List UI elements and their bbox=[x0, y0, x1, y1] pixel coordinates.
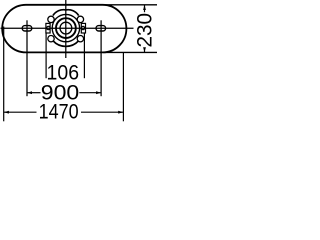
canopy bottom lobe arc bbox=[53, 41, 79, 47]
1470 extension line left bbox=[3, 27, 5, 122]
right mounting slot bbox=[96, 26, 106, 31]
svg-text:230: 230 bbox=[133, 13, 156, 48]
canopy ring circle bbox=[52, 14, 79, 41]
106 extension line left bbox=[45, 33, 47, 78]
106 extension line right bbox=[83, 33, 85, 78]
1470 left arrowhead bbox=[4, 111, 9, 114]
extension line bottom (230) bbox=[103, 51, 157, 53]
canopy NW lug bbox=[48, 16, 54, 22]
230 bottom arrowhead bbox=[143, 47, 146, 52]
west clamp tab bbox=[46, 23, 50, 33]
fixture body outline (stadium shape) bbox=[2, 5, 126, 53]
canopy SE lug bbox=[77, 36, 83, 42]
left mounting slot bbox=[22, 26, 32, 31]
left slot centerline / 900 extension line bbox=[26, 20, 28, 96]
west tab hole bbox=[47, 26, 50, 29]
1470 extension line right bbox=[122, 52, 124, 121]
canopy top lobe arc bbox=[53, 10, 79, 16]
230 dimension line top segment bbox=[144, 5, 146, 12]
900 dimension line right segment bbox=[79, 92, 101, 94]
1470 dimension line right segment bbox=[81, 111, 123, 113]
canopy NE lug bbox=[77, 16, 83, 22]
1470 dimension line left segment bbox=[4, 111, 37, 113]
900 right arrowhead bbox=[96, 91, 101, 94]
right slot centerline / 900 extension line bbox=[100, 20, 102, 96]
horizontal centerline bbox=[1, 27, 134, 29]
230 top arrowhead bbox=[143, 5, 146, 10]
east tab hole bbox=[81, 26, 84, 29]
east clamp tab bbox=[81, 23, 85, 33]
extension line top (230) bbox=[103, 4, 157, 6]
1470 right arrowhead bbox=[118, 111, 123, 114]
vertical centerline of canopy bbox=[65, 0, 67, 58]
canopy inner circle bbox=[60, 22, 72, 34]
canopy outer circle bbox=[56, 18, 76, 38]
900 left arrowhead bbox=[27, 91, 32, 94]
canopy SW lug bbox=[48, 36, 54, 42]
900 dimension line left segment bbox=[27, 92, 41, 94]
svg-text:1470: 1470 bbox=[39, 101, 79, 124]
230 dimension line bottom segment bbox=[144, 48, 146, 52]
